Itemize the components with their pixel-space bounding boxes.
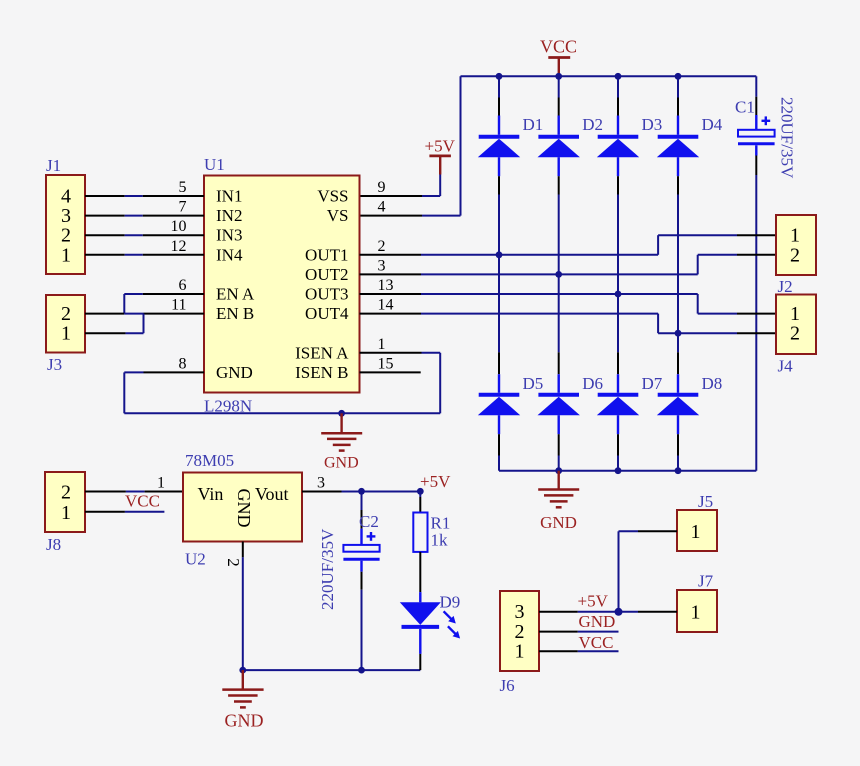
connector J7 body (677, 590, 717, 632)
svg-text:+5V: +5V (420, 472, 451, 491)
pin D3 cathode (617, 98, 619, 116)
wire bottom gnd row (243, 669, 420, 671)
wire J7 to +5V node (619, 611, 639, 613)
svg-text:7: 7 (179, 199, 187, 216)
svg-text:D8: D8 (702, 374, 723, 393)
pin J7.1 stub (638, 611, 677, 613)
pin D3 anode (617, 176, 619, 194)
wire rail to D3 (617, 76, 619, 97)
svg-text:ISEN A: ISEN A (295, 343, 349, 362)
node R1 top junction (417, 488, 424, 495)
svg-text:14: 14 (378, 297, 394, 314)
wire J5 vertical (618, 531, 620, 612)
ground symbol (under U2) (222, 670, 263, 707)
wire down to D5 (498, 255, 500, 352)
svg-text:OUT4: OUT4 (305, 304, 349, 323)
wire EN B vertical (143, 314, 145, 334)
pin D1 cathode (498, 98, 500, 116)
svg-text:IN3: IN3 (216, 226, 242, 245)
svg-text:10: 10 (171, 218, 187, 235)
pin J6.1 stub (539, 650, 578, 652)
node junction D4 / OUT (675, 330, 682, 337)
diode D4 (657, 116, 699, 177)
pin U1 OUT1 stub (360, 254, 422, 256)
diode D2 (538, 116, 580, 177)
svg-text:U2: U2 (185, 550, 206, 569)
pin R1 top (419, 497, 421, 513)
svg-text:OUT1: OUT1 (305, 245, 348, 264)
pin U1 IN2 stub (143, 215, 204, 217)
node gnd junction under U1 (338, 410, 345, 417)
connector J5 body (677, 510, 717, 551)
pin U1.1 ISEN A stub (360, 352, 422, 354)
pin D5 anode (498, 434, 500, 455)
svg-text:1: 1 (61, 502, 71, 524)
wire C1 to gnd rail (755, 175, 757, 471)
wire J3 row (124, 313, 143, 315)
pin C2 negative (361, 572, 363, 590)
svg-text:J4: J4 (778, 357, 794, 376)
svg-text:D4: D4 (702, 115, 723, 134)
node junction D2 / OUT (555, 271, 562, 278)
svg-text:5: 5 (179, 179, 187, 196)
svg-text:EN A: EN A (216, 285, 255, 304)
pin U1.8 GND stub (144, 371, 205, 373)
pin J8.1 stub (85, 511, 125, 513)
pin J1.2 stub (85, 234, 125, 236)
capacitor C1 (738, 115, 775, 156)
wire down to D8 (677, 333, 679, 352)
wire to J4.2 (658, 332, 737, 334)
connector J8 body (45, 472, 85, 532)
svg-text:Vout: Vout (255, 484, 289, 504)
wire U2 gnd vertical (242, 557, 244, 670)
svg-text:J8: J8 (46, 535, 61, 554)
svg-text:3: 3 (515, 601, 525, 623)
wire VCC net stub (125, 511, 164, 513)
diode D5 (478, 374, 520, 434)
wire J6.2 GND (578, 631, 619, 633)
wire D5 to gnd rail (498, 456, 500, 471)
wire EN A vertical (123, 294, 125, 314)
connector J2 body (776, 215, 816, 275)
svg-text:VCC: VCC (579, 633, 614, 652)
pin D6 cathode (558, 352, 560, 374)
wire C2 to gnd row (361, 590, 363, 670)
pin U1 OUT4 stub (360, 313, 422, 315)
node gnd rail junction (555, 467, 562, 474)
svg-text:1: 1 (691, 602, 701, 624)
svg-text:D9: D9 (440, 593, 461, 612)
wire D6 to gnd rail (558, 456, 560, 471)
svg-text:GND: GND (540, 513, 577, 532)
node C2 top junction (358, 488, 365, 495)
svg-text:ISEN B: ISEN B (295, 363, 348, 382)
wire OUT1 row (421, 254, 658, 256)
svg-text:GND: GND (234, 489, 254, 528)
svg-text:3: 3 (317, 475, 325, 492)
wire OUT2 vertical bend (697, 255, 699, 275)
wire D3 to OUT row (617, 195, 619, 295)
diode D7 (597, 374, 639, 434)
svg-text:9: 9 (378, 179, 386, 196)
pin J1.4 stub (85, 195, 125, 197)
svg-text:J3: J3 (47, 355, 62, 374)
svg-text:13: 13 (378, 277, 394, 294)
pin C2 positive (361, 510, 363, 529)
wire down to D6 (558, 274, 560, 352)
node VCC rail junction col D1 (496, 73, 503, 80)
svg-text:2: 2 (790, 244, 800, 266)
svg-text:GND: GND (216, 363, 253, 382)
node gnd rail junction (675, 467, 682, 474)
wire D2 to OUT row (558, 195, 560, 275)
pin U1.9 VSS stub (360, 195, 423, 197)
wire to J4.1 (698, 313, 737, 315)
pin D5 cathode (498, 352, 500, 374)
connector J4 body (776, 295, 816, 355)
pin U1.4 VS stub (360, 215, 423, 217)
wire J6.1 VCC (578, 650, 619, 652)
svg-text:1: 1 (157, 475, 165, 492)
svg-text:J2: J2 (778, 277, 793, 296)
svg-text:U1: U1 (204, 155, 225, 174)
svg-text:IN1: IN1 (216, 187, 242, 206)
wire D7 to gnd rail (617, 456, 619, 471)
svg-text:OUT3: OUT3 (305, 285, 348, 304)
svg-text:4: 4 (378, 199, 386, 216)
svg-text:2: 2 (61, 482, 71, 504)
wire GND8 vertical (123, 372, 125, 413)
svg-text:D5: D5 (523, 374, 544, 393)
node junction D3 / OUT (615, 291, 622, 298)
pin C1 positive (755, 97, 757, 115)
pin C1 negative (755, 156, 757, 176)
svg-text:+5V: +5V (578, 592, 609, 611)
svg-text:220UF/35V: 220UF/35V (778, 97, 797, 179)
ground symbol (under U1) (321, 413, 362, 450)
pin J2.1 stub (737, 234, 776, 236)
pin J4.1 stub (737, 313, 776, 315)
pin D2 anode (558, 176, 560, 194)
svg-text:+5V: +5V (425, 137, 456, 156)
wire OUT4 row (421, 313, 658, 315)
svg-text:78M05: 78M05 (185, 451, 234, 470)
wire OUT3 vertical bend (697, 294, 699, 314)
pin U2.1 Vin stub (145, 491, 183, 493)
svg-text:IN4: IN4 (216, 245, 243, 264)
connector J3 body (46, 295, 85, 353)
wire J1.4 to IN1 (125, 195, 143, 197)
op-amp U1 L298N body (204, 176, 360, 393)
svg-text:GND: GND (579, 612, 616, 631)
node VCC rail junction col D3 (615, 73, 622, 80)
wire VS horizontal (422, 215, 461, 217)
svg-text:D6: D6 (582, 374, 603, 393)
wire rail to D2 (558, 76, 560, 97)
wire OUT4 vertical bend (657, 314, 659, 334)
pin J5.1 stub (638, 530, 677, 532)
svg-text:GND: GND (225, 711, 264, 731)
wire to R1 (419, 492, 421, 498)
pin U2.2 GND stub (242, 542, 244, 558)
svg-text:D2: D2 (582, 115, 603, 134)
svg-text:Vin: Vin (198, 484, 224, 504)
pin J2.2 stub (737, 254, 776, 256)
pin D4 anode (677, 176, 679, 194)
wire up to ISEN A (439, 353, 441, 414)
pin U1 IN1 stub (143, 195, 204, 197)
svg-text:IN2: IN2 (216, 206, 242, 225)
node gnd rail junction (615, 467, 622, 474)
svg-text:D7: D7 (642, 374, 663, 393)
wire +5V row (342, 491, 421, 493)
connector J1 body (46, 175, 85, 274)
pin J3.2 stub (85, 313, 124, 315)
pin D6 anode (558, 434, 560, 455)
diode D1 (478, 116, 520, 177)
regulator U2 78M05 body (183, 473, 302, 542)
pin U1 OUT2 stub (360, 273, 422, 275)
wire VCC rail top (461, 75, 757, 77)
node gnd corner junction (239, 667, 246, 674)
node C2 bottom junction (358, 667, 365, 674)
pin U1 IN3 stub (143, 234, 204, 236)
svg-text:2: 2 (224, 558, 243, 567)
pin D4 cathode (677, 98, 679, 116)
wire J6.3 +5V (578, 611, 619, 613)
wire rail to D1 (498, 76, 500, 97)
ground symbol (diode rail) (538, 471, 579, 508)
svg-text:8: 8 (179, 355, 187, 372)
node VCC rail junction col D4 (675, 73, 682, 80)
wire OUT1 vertical bend (657, 235, 659, 255)
power symbol VCC (548, 58, 570, 75)
wire OUT2 row (421, 273, 698, 275)
diode D6 (538, 374, 580, 434)
wire to C2 (361, 492, 363, 511)
svg-text:J7: J7 (698, 572, 714, 591)
svg-text:D1: D1 (523, 115, 544, 134)
svg-text:J1: J1 (46, 156, 61, 175)
svg-text:3: 3 (378, 257, 386, 274)
capacitor C2 (343, 529, 379, 572)
pin J1.3 stub (85, 215, 125, 217)
svg-text:J5: J5 (698, 492, 713, 511)
wire to J2.2 (698, 254, 737, 256)
wire D1 to OUT row (498, 195, 500, 255)
svg-text:VCC: VCC (125, 492, 160, 511)
wire GND8 (124, 371, 143, 373)
svg-text:15: 15 (378, 355, 394, 372)
svg-text:VSS: VSS (317, 187, 348, 206)
wire rail to C1 (755, 76, 757, 96)
svg-text:11: 11 (171, 297, 186, 314)
svg-text:VS: VS (327, 206, 349, 225)
wire EN A (124, 293, 142, 295)
svg-text:C2: C2 (359, 512, 379, 531)
wire J1.3 to IN2 (125, 215, 143, 217)
node junction D1 / OUT (496, 251, 503, 258)
pin U1 IN4 stub (143, 254, 204, 256)
svg-text:2: 2 (790, 323, 800, 345)
svg-text:J6: J6 (500, 676, 515, 695)
wire J1.2 to IN3 (125, 234, 143, 236)
wire gnd row under U1 (124, 412, 440, 414)
D9 LED arrows (444, 611, 461, 638)
pin J4.2 stub (737, 332, 776, 334)
wire D4 to OUT row (677, 195, 679, 334)
svg-text:1: 1 (61, 244, 71, 266)
pin J8.2 stub (85, 491, 126, 493)
wire VSS horizontal (422, 195, 440, 197)
pin D8 anode (677, 434, 679, 455)
pin J6.3 stub (539, 611, 578, 613)
svg-text:1k: 1k (431, 531, 449, 550)
svg-text:220UF/35V: 220UF/35V (318, 528, 337, 610)
wire to J2.1 (658, 234, 737, 236)
pin U1 EN B stub (144, 313, 205, 315)
pin U1 EN A stub (143, 293, 204, 295)
wire J8.2 to Vin (126, 491, 145, 493)
pin U1 OUT3 stub (360, 293, 422, 295)
svg-text:1: 1 (378, 336, 386, 353)
wire OUT3 row (421, 293, 698, 295)
pin U2.3 Vout stub (302, 491, 342, 493)
wire VS vertical (460, 76, 462, 215)
wire rail to D4 (677, 76, 679, 97)
svg-text:OUT2: OUT2 (305, 265, 348, 284)
svg-text:2: 2 (378, 238, 386, 255)
svg-text:1: 1 (61, 323, 71, 345)
wire down to D7 (617, 294, 619, 352)
svg-text:VCC: VCC (540, 37, 577, 57)
pin D9 cathode (419, 654, 421, 670)
LED D9 (400, 592, 441, 654)
svg-text:6: 6 (179, 277, 187, 294)
connector J6 body (500, 591, 539, 671)
pin D2 cathode (558, 98, 560, 116)
pin U1.15 ISEN B stub (360, 371, 421, 373)
node VCC rail junction col D2 (555, 73, 562, 80)
wire ISEN A (422, 352, 441, 354)
svg-text:1: 1 (515, 640, 525, 662)
wire VSS vertical (439, 175, 441, 197)
svg-text:C1: C1 (735, 98, 755, 117)
svg-text:D3: D3 (642, 115, 663, 134)
pin D7 anode (617, 434, 619, 455)
diode D3 (597, 116, 639, 177)
pin J3.1 stub (85, 332, 126, 334)
node +5V junction J5/J7 (615, 608, 623, 616)
wire D8 to gnd rail (677, 456, 679, 471)
svg-text:EN B: EN B (216, 304, 254, 323)
diode D8 (657, 374, 699, 434)
resistor R1 (413, 513, 427, 552)
wire J5 horizontal (619, 530, 639, 532)
pin D8 cathode (677, 352, 679, 374)
svg-text:12: 12 (171, 238, 187, 255)
wire J3.1 to EN B (126, 332, 144, 334)
pin D7 cathode (617, 352, 619, 374)
svg-text:GND: GND (324, 454, 359, 471)
pin D1 anode (498, 176, 500, 194)
pin J6.2 stub (539, 631, 578, 633)
pin R1 bottom / wire to D9 (419, 552, 421, 592)
svg-text:1: 1 (691, 521, 701, 543)
wire GND rail bottom of diodes (499, 470, 756, 472)
wire J1.1 to IN4 (125, 254, 143, 256)
pin J1.1 stub (85, 254, 125, 256)
power symbol +5V (VSS) (429, 156, 451, 175)
